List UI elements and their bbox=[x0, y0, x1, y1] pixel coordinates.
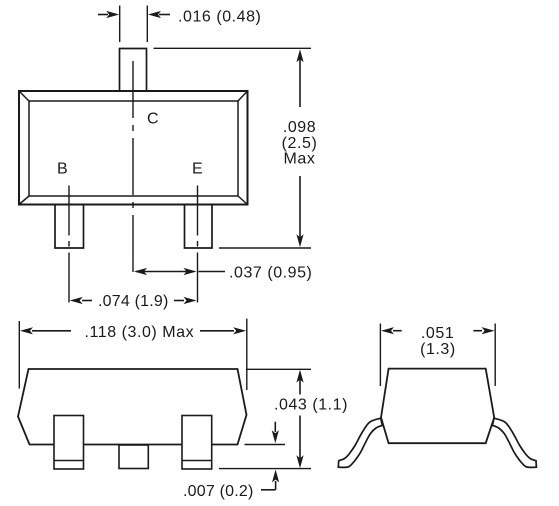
front view collector lead (center) bbox=[119, 445, 148, 469]
top view collector lead (top tab) bbox=[120, 49, 147, 92]
dimension .098 extension line top bbox=[154, 47, 312, 49]
svg-text:.098: .098 bbox=[283, 119, 316, 136]
dimension .037 (0.95) line bbox=[136, 271, 194, 273]
centerline B bbox=[68, 186, 70, 307]
dimension .074 (1.9) left arrow bbox=[82, 300, 92, 302]
top view bevel corner bottom-right bbox=[238, 196, 248, 205]
dimension .007 up arrow bbox=[275, 481, 277, 490]
dimension .037 right arrow bbox=[184, 268, 197, 275]
dimension .098 vertical line upper segment bbox=[299, 55, 301, 107]
svg-text:.051: .051 bbox=[421, 325, 454, 342]
svg-text:.118 (3.0) Max: .118 (3.0) Max bbox=[85, 324, 195, 341]
side view right gull-wing lead bbox=[492, 418, 536, 467]
dimension .016 (0.48) left arrow bbox=[98, 14, 108, 16]
dimension .051 extension line right bbox=[494, 324, 496, 387]
svg-text:.007 (0.2): .007 (0.2) bbox=[183, 483, 253, 500]
dimension .016 (0.48) extension line left bbox=[119, 6, 121, 43]
dimension .098 vertical line lower segment bbox=[299, 176, 301, 242]
dimension .074 (1.9) right arrow bbox=[174, 300, 184, 302]
top view package body outer outline bbox=[19, 91, 248, 205]
body bottom extension line bbox=[245, 444, 286, 446]
dimension .118 extension line left bbox=[18, 321, 20, 389]
dimension .037 leader bbox=[199, 271, 226, 273]
front view base lead bbox=[54, 416, 84, 470]
front view emitter lead bbox=[182, 416, 212, 470]
dimension .043 vertical upper segment + up arrow bbox=[299, 375, 301, 395]
dimension .016 (0.48) right arrow bbox=[159, 14, 170, 16]
svg-text:B: B bbox=[57, 160, 68, 177]
dimension .043 extension line top bbox=[246, 368, 311, 370]
svg-text:Max: Max bbox=[284, 150, 316, 167]
dimension .051 left arrow bbox=[393, 330, 402, 332]
dimension .043 vertical lower segment + down arrow bbox=[299, 416, 301, 464]
side view package body bbox=[381, 369, 494, 444]
dimension .118 left arrow bbox=[32, 330, 71, 332]
dimension .051 right arrow bbox=[473, 330, 482, 332]
centerline E bbox=[197, 186, 199, 307]
dimension .007 leader bbox=[261, 489, 276, 491]
svg-text:.043 (1.1): .043 (1.1) bbox=[274, 397, 348, 414]
dimension .037 left arrow bbox=[134, 268, 147, 275]
svg-text:(2.5): (2.5) bbox=[282, 135, 318, 152]
small down arrow to body bottom bbox=[274, 422, 276, 432]
top view bevel corner bottom-left bbox=[19, 196, 29, 205]
top view bevel corner top-left bbox=[19, 91, 29, 101]
top view base lead (bottom-left tab) bbox=[55, 205, 84, 249]
svg-text:.074 (1.9): .074 (1.9) bbox=[98, 293, 168, 310]
dimension .051 extension line left bbox=[379, 324, 381, 387]
svg-text:.016 (0.48): .016 (0.48) bbox=[178, 8, 261, 25]
dimension .118 extension line right bbox=[246, 319, 248, 390]
dimension .118 right arrow bbox=[200, 330, 234, 332]
dimension .098 up arrow bbox=[296, 49, 303, 62]
top view bevel corner top-right bbox=[238, 91, 248, 101]
dimension .098 down arrow bbox=[296, 234, 303, 247]
svg-text:E: E bbox=[192, 160, 203, 177]
dimension .016 (0.48) extension line right bbox=[146, 6, 148, 43]
top view emitter lead (bottom-right tab) bbox=[185, 205, 213, 249]
dimension .098 extension line bottom bbox=[219, 247, 311, 249]
side view left gull-wing lead bbox=[338, 418, 382, 467]
centerline C (dash-dot vertical) bbox=[132, 61, 134, 277]
svg-text:.037 (0.95): .037 (0.95) bbox=[229, 265, 312, 282]
top view package body inner outline bbox=[29, 101, 238, 196]
svg-text:(1.3): (1.3) bbox=[420, 341, 456, 358]
front view package body bbox=[18, 369, 247, 445]
svg-text:C: C bbox=[147, 110, 159, 127]
seating plane extension line bbox=[219, 468, 311, 470]
